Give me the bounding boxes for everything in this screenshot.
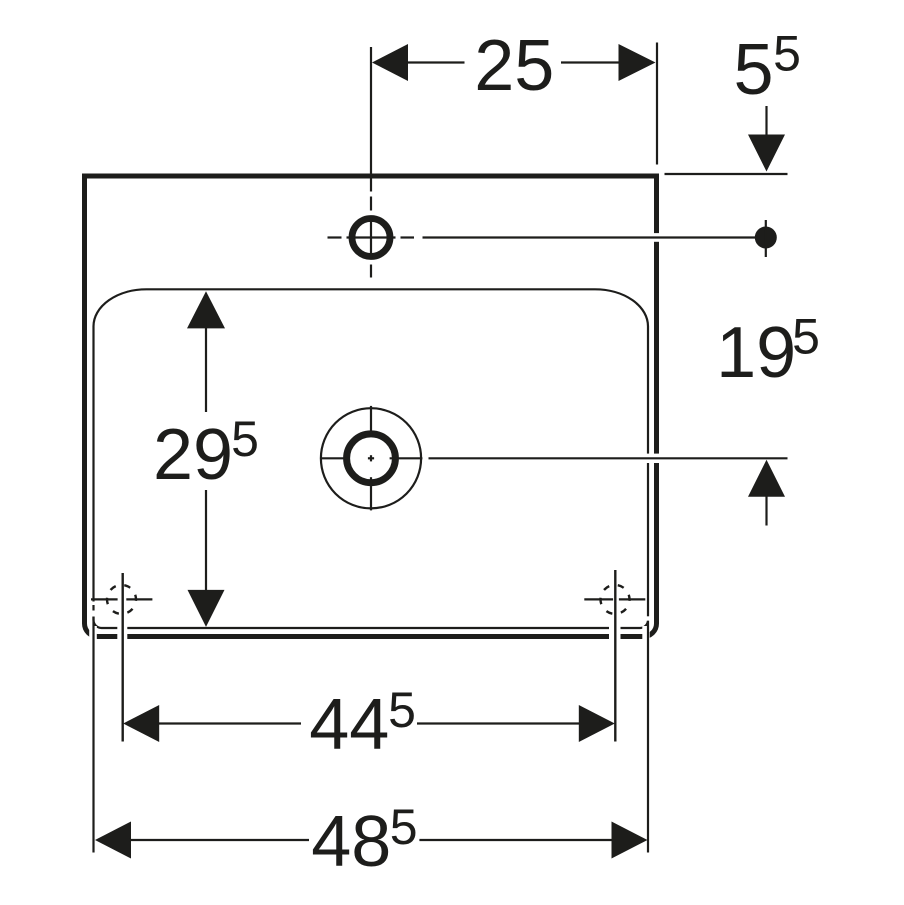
tap hole horizontal centerline dashes — [328, 236, 342, 238]
dot terminator — [755, 227, 777, 249]
washbasin outer outline — [85, 176, 657, 637]
svg-text:5: 5 — [390, 799, 418, 855]
dimension 5.5: extension line at basin top edge level — [665, 173, 788, 175]
dimension 29.5: lower stem — [205, 490, 207, 591]
svg-text:5: 5 — [231, 411, 259, 467]
left fixing hole horizontal centerline — [91, 598, 118, 600]
white gaps where extension lines cross bottom edges — [89, 233, 660, 644]
svg-text:44: 44 — [309, 685, 389, 765]
tap hole vertical centerline dashes — [370, 197, 372, 211]
svg-text:29: 29 — [153, 415, 233, 495]
dimension 29.5: down arrowhead at basin bottom — [188, 590, 225, 627]
svg-text:5: 5 — [792, 309, 820, 365]
drain inner circle — [347, 434, 396, 483]
dimension 25: left arrowhead — [372, 44, 408, 81]
dimension 29.5: up arrowhead at basin top — [187, 291, 225, 328]
right fixing hole horizontal centerline — [584, 598, 613, 600]
dimension 44.5: right line segment — [417, 722, 581, 724]
drain vertical centerline dashes — [370, 406, 372, 436]
dimension 5.5: down arrowhead — [748, 135, 785, 172]
left fixing hole dashed circle — [107, 585, 136, 614]
svg-text:5: 5 — [733, 30, 773, 110]
dimension 25: left extension line (tap hole axis) — [370, 47, 372, 192]
tap hole — [352, 219, 390, 257]
dimension 25: left line segment — [406, 61, 465, 63]
svg-text:48: 48 — [311, 802, 391, 882]
drain horizontal centerline dashes — [320, 457, 350, 459]
dimension 48.5: left line segment — [129, 839, 309, 841]
dimension 19.5: up arrowhead — [748, 460, 785, 497]
svg-text:5: 5 — [388, 682, 416, 738]
dimension 5.5: arrow stem — [765, 106, 767, 136]
dimension 25: right extension line — [656, 43, 658, 165]
right fixing hole dashed circle — [601, 585, 630, 614]
basin inner bowl outline — [94, 289, 649, 628]
leader line from drain to up arrow — [429, 457, 788, 459]
dimension 44.5: left line segment — [157, 722, 301, 724]
svg-text:5: 5 — [773, 26, 801, 82]
dimension 25: right arrowhead — [619, 44, 656, 81]
dimension 48.5: left extension line — [92, 605, 94, 611]
dimension 44.5: right arrowhead — [579, 705, 615, 742]
dimension 48.5: right arrowhead — [612, 822, 648, 859]
svg-text:25: 25 — [474, 26, 554, 106]
dimension 44.5: right extension line through fixing hole — [614, 570, 616, 742]
leader line from tap hole to dot terminator — [423, 236, 758, 238]
dimension 44.5: left arrowhead — [123, 705, 159, 742]
dimension 29.5: upper stem — [205, 327, 207, 413]
dimension 19.5: arrow stem — [765, 495, 767, 526]
svg-text:19: 19 — [716, 313, 796, 393]
dimension 48.5: left arrowhead — [95, 822, 131, 859]
dimension 25: right line segment — [561, 61, 620, 63]
dimension 44.5: left extension line through fixing hole — [121, 573, 123, 742]
dot terminator axis line — [765, 220, 767, 257]
dimension 48.5: right line segment — [419, 839, 613, 841]
drain outer circle — [321, 408, 421, 508]
dimension 48.5: right extension line — [647, 621, 649, 853]
